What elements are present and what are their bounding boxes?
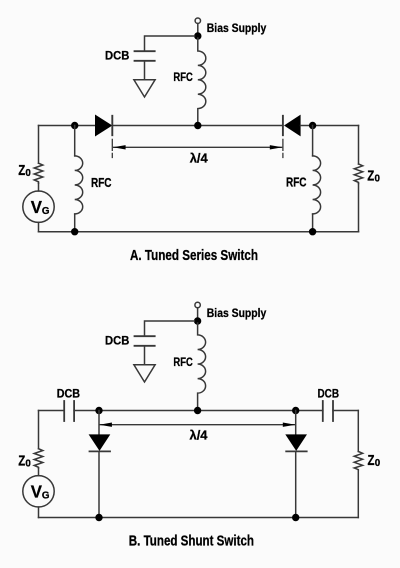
svg-text:0: 0 — [375, 174, 381, 185]
wire: resistor to source VG (B) — [38, 468, 40, 476]
dimension arrowhead right (B) — [283, 423, 296, 427]
source VG (A) — [23, 191, 54, 222]
svg-text:G: G — [42, 206, 50, 217]
diode D2 (series, anode right) — [284, 115, 301, 137]
wire: B right vertical (main bus to resistor) — [357, 411, 359, 452]
svg-text:0: 0 — [25, 168, 31, 179]
dashed extension line from D2 cathode — [282, 139, 284, 157]
wire: A left shunt branch bottom — [74, 214, 76, 232]
svg-text:0: 0 — [375, 458, 381, 469]
wire: B main bus (cap to center) — [74, 410, 323, 412]
wire: B bias junction to DCB capacitor — [145, 321, 195, 335]
node: B bottom right junction — [292, 514, 299, 521]
wire: B left diode branch bottom — [98, 451, 100, 517]
wire: A bias terminal to junction — [197, 24, 199, 33]
node: B bias junction — [194, 317, 201, 324]
resistor Z0 (B left) — [34, 449, 43, 468]
node: A bottom right junction — [309, 228, 316, 235]
svg-text:RFC: RFC — [173, 355, 193, 369]
bias supply terminal A — [195, 18, 200, 23]
svg-text:λ/4: λ/4 — [190, 427, 209, 442]
dimension arrowhead right (A) — [270, 145, 283, 149]
wire: A bias junction to DCB capacitor — [145, 36, 195, 50]
wire: A left vertical (top bus to resistor) — [38, 126, 40, 164]
diode D4 cathode bar — [286, 450, 307, 452]
dimension arrowhead left (A) — [113, 145, 126, 149]
wire: A right shunt branch bottom — [312, 214, 314, 232]
wire: A top bus middle — [112, 125, 283, 127]
wire: source VG to bottom bus (B) — [38, 507, 40, 518]
wire: B main bus left — [39, 410, 65, 412]
svg-text:V: V — [31, 482, 43, 502]
wire: B bias terminal to junction — [197, 308, 199, 318]
svg-text:A. Tuned Series Switch: A. Tuned Series Switch — [130, 248, 258, 264]
wire: B left diode branch top — [98, 411, 100, 435]
svg-text:Bias Supply: Bias Supply — [207, 306, 267, 320]
node: B main center junction — [194, 407, 201, 414]
node: B bottom left junction — [95, 514, 102, 521]
wire: B right diode branch bottom — [295, 451, 297, 517]
svg-text:0: 0 — [25, 458, 31, 469]
svg-text:λ/4: λ/4 — [190, 150, 209, 165]
svg-text:DCB: DCB — [105, 49, 130, 63]
svg-text:RFC: RFC — [286, 175, 307, 189]
svg-text:DCB: DCB — [105, 334, 130, 348]
node: A bottom left junction — [71, 228, 78, 235]
svg-text:B. Tuned Shunt Switch: B. Tuned Shunt Switch — [129, 534, 254, 550]
wire: B bottom bus — [39, 517, 359, 519]
bias supply terminal B — [195, 302, 200, 307]
dashed extension line from D1 cathode — [111, 139, 113, 157]
diode D1 cathode bar — [111, 116, 113, 135]
wire: B right diode branch top — [295, 411, 297, 435]
capacitor DCB (B left series) — [64, 401, 74, 421]
svg-text:RFC: RFC — [173, 70, 193, 84]
capacitor DCB (B bias) — [135, 336, 155, 346]
inductor RFC (A bias choke) — [198, 38, 206, 126]
resistor Z0 (A right) — [354, 164, 362, 184]
ground (A bias) — [134, 80, 155, 97]
svg-text:Bias Supply: Bias Supply — [207, 21, 267, 35]
ground (B bias) — [134, 365, 155, 382]
node: B main right junction — [292, 407, 299, 414]
svg-text:RFC: RFC — [91, 176, 112, 190]
svg-text:Z: Z — [18, 453, 25, 469]
svg-text:Z: Z — [18, 163, 25, 179]
wire: A right shunt branch top — [312, 126, 314, 156]
wire: DCB capacitor to ground (A) — [144, 62, 146, 80]
dimension arrowhead left (B) — [99, 423, 112, 427]
wire: A right vertical (resistor to bottom bus) — [358, 184, 360, 232]
svg-text:DCB: DCB — [318, 387, 340, 401]
wire: A top bus — [39, 125, 96, 127]
diode D3 cathode bar — [90, 450, 111, 452]
capacitor DCB (B right series) — [323, 401, 333, 421]
node: A top center junction — [194, 122, 201, 129]
inductor RFC (B bias choke) — [198, 323, 206, 411]
resistor Z0 (A left) — [34, 163, 43, 183]
dimension line lambda/4 (B) — [100, 424, 295, 426]
diode D1 (series, anode left) — [95, 115, 112, 137]
dimension line lambda/4 (A) — [114, 146, 282, 148]
diode D4 (shunt right, anode top) — [285, 434, 307, 451]
wire: A bottom bus — [39, 231, 359, 233]
wire: B right vertical (resistor to bottom bus) — [357, 470, 359, 518]
svg-text:DCB: DCB — [57, 386, 81, 400]
node: A bias junction — [194, 32, 201, 39]
svg-text:Z: Z — [367, 169, 374, 185]
wire: B left vertical (main bus to resistor) — [38, 411, 40, 449]
diode D2 cathode bar — [282, 116, 284, 135]
resistor Z0 (B right) — [354, 452, 362, 471]
svg-text:Z: Z — [368, 453, 375, 469]
node: B main left junction — [95, 407, 102, 414]
wire: A right vertical (top bus to resistor) — [358, 126, 360, 165]
svg-text:G: G — [42, 490, 50, 501]
source VG (B) — [23, 476, 54, 507]
svg-text:V: V — [31, 197, 43, 217]
diode D3 (shunt left, anode top) — [89, 434, 111, 451]
node: A top right junction — [309, 122, 316, 129]
wire: A left shunt branch top — [74, 126, 76, 156]
wire: B main bus right — [333, 410, 358, 412]
wire: source VG to bottom bus (A) — [38, 222, 40, 231]
wire: DCB capacitor to ground (B) — [144, 347, 146, 365]
wire: resistor to source VG (A) — [38, 183, 40, 191]
node: A top left junction — [71, 122, 78, 129]
capacitor DCB (A bias) — [135, 51, 155, 61]
wire: A top bus right — [301, 125, 359, 127]
inductor RFC (A left shunt) — [75, 156, 83, 214]
inductor RFC (A right shunt) — [313, 156, 321, 214]
